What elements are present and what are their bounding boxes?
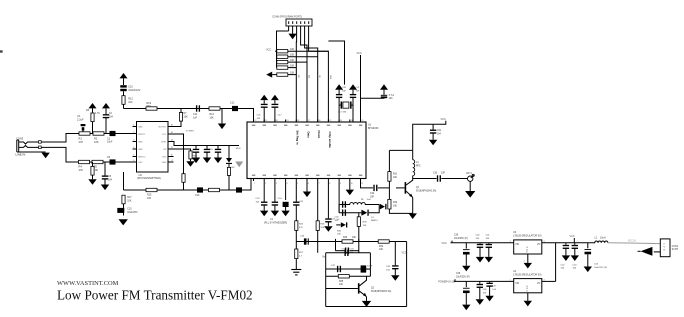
ground battery arrow left — [641, 247, 653, 256]
svg-text:Chip enable: Chip enable — [328, 132, 332, 149]
svg-text:C46: C46 — [483, 289, 488, 291]
wire stub to mod node — [123, 172, 125, 190]
svg-text:25V: 25V — [367, 269, 371, 271]
svg-text:Q2: Q2 — [371, 288, 375, 290]
wire CON1 pin5 to bus C — [305, 31, 318, 122]
capacitor C34 parallel — [336, 250, 345, 252]
svg-text:1: 1 — [254, 183, 255, 185]
svg-text:9018(NPN30V0.5A): 9018(NPN30V0.5A) — [371, 290, 392, 293]
svg-text:C43: C43 — [573, 264, 578, 266]
svg-text:VCC: VCC — [162, 134, 167, 136]
transistor Q2 9018 — [358, 283, 360, 293]
ground Q2 emitter — [362, 301, 371, 307]
svg-text:L78L05 (REGULATOR 5V): L78L05 (REGULATOR 5V) — [513, 273, 542, 276]
resistor R3 bias — [91, 113, 94, 122]
svg-text:104: 104 — [386, 269, 390, 271]
svg-text:10K: 10K — [363, 225, 367, 227]
svg-text:R26: R26 — [299, 224, 304, 226]
svg-text:RFC: RFC — [416, 165, 421, 167]
connector ANT1 antenna — [468, 176, 473, 181]
ground CON1 — [288, 34, 296, 40]
svg-text:104: 104 — [483, 292, 487, 294]
capacitor C8a on h-line — [196, 105, 197, 111]
ground h-line — [218, 124, 226, 130]
ground R6 — [88, 179, 96, 185]
svg-text:INPUT2: INPUT2 — [138, 157, 146, 159]
svg-text:POWER4.5-12V: POWER4.5-12V — [438, 281, 456, 284]
wire pin5 chain down — [295, 205, 297, 221]
svg-text:47K: 47K — [79, 168, 84, 172]
svg-text:6: 6 — [308, 183, 309, 185]
svg-text:9: 9 — [664, 244, 666, 246]
svg-text:R31: R31 — [393, 174, 398, 176]
svg-text:3: 3 — [276, 183, 277, 185]
resistor R31 base bias upper — [388, 150, 390, 171]
resistor R2 — [93, 132, 104, 135]
ground mark faded — [235, 162, 243, 168]
svg-text:10K: 10K — [127, 199, 132, 202]
svg-text:9V BT: 9V BT — [672, 249, 679, 251]
svg-text:R27: R27 — [299, 252, 304, 254]
svg-text:10K: 10K — [184, 115, 189, 118]
ground R10 — [186, 161, 194, 167]
ground C46 — [476, 299, 484, 305]
wire CON1 ground pin2 — [292, 31, 294, 34]
capacitor C44 electrolytic — [587, 243, 589, 249]
svg-text:100: 100 — [389, 98, 394, 100]
svg-text:47K: 47K — [79, 140, 84, 144]
power VCC bias right — [102, 103, 110, 108]
capacitor C21 xtal right — [350, 94, 356, 95]
svg-text:R3: R3 — [86, 109, 90, 112]
svg-text:C12: C12 — [230, 102, 235, 105]
wire regulator outputs junction — [555, 243, 557, 282]
resistor R33 — [342, 240, 353, 243]
pin stubs U2 left — [133, 126, 137, 128]
svg-text:MOD: MOD — [236, 148, 242, 150]
svg-text:4.7: 4.7 — [299, 255, 303, 257]
svg-text:104: 104 — [573, 268, 577, 270]
svg-text:104: 104 — [492, 289, 496, 291]
svg-text:C28: C28 — [300, 236, 305, 238]
pin stubs U2 right — [168, 156, 174, 158]
ground C42 — [562, 255, 570, 261]
wire U3 output — [542, 242, 588, 244]
capacitor C30b — [206, 146, 208, 149]
svg-text:100: 100 — [147, 197, 152, 200]
ground C31 — [429, 140, 437, 146]
ground U1 pin10 — [349, 181, 351, 190]
svg-text:560: 560 — [193, 155, 197, 157]
diode D1 varactor — [361, 210, 367, 216]
wire R33 right — [353, 241, 359, 243]
svg-text:10uH: 10uH — [600, 237, 606, 239]
inductor L1 — [339, 203, 379, 205]
svg-text:470: 470 — [299, 227, 303, 229]
svg-text:104: 104 — [437, 133, 442, 135]
node input arrow row5 — [266, 72, 272, 78]
svg-text:VIN: VIN — [515, 283, 519, 285]
svg-text:R1: R1 — [79, 137, 83, 141]
wire CON1 pin4 to bus B — [301, 31, 307, 122]
svg-text:C1: C1 — [77, 114, 81, 118]
svg-text:C39: C39 — [454, 234, 459, 236]
wire left vertical osc — [325, 253, 327, 307]
svg-text:10K: 10K — [290, 48, 295, 51]
resistor R6 to ground — [92, 162, 94, 166]
wire U4 output to junction — [542, 280, 556, 282]
svg-text:TEST: TEST — [161, 142, 167, 144]
resistor R35 row4 — [338, 275, 349, 278]
resistor R34 — [359, 241, 378, 243]
ground earth style — [291, 269, 301, 271]
resistor R1 — [79, 132, 90, 135]
svg-text:C16: C16 — [257, 115, 262, 117]
svg-text:CON6 (PROGRAM PORT): CON6 (PROGRAM PORT) — [272, 16, 302, 19]
svg-text:R30: R30 — [337, 231, 342, 233]
pin stubs CON1 — [288, 26, 290, 31]
svg-text:V: V — [664, 247, 666, 249]
resistor R4 — [79, 160, 90, 163]
svg-text:104: 104 — [486, 238, 490, 240]
resistor R16 on mod line — [209, 188, 220, 191]
svg-text:R4: R4 — [79, 165, 83, 169]
svg-text:10K: 10K — [290, 59, 295, 62]
svg-text:22: 22 — [254, 120, 256, 122]
svg-text:10K: 10K — [210, 116, 215, 119]
svg-text:10uF: 10uF — [107, 141, 113, 144]
wire tank bottom rail — [339, 212, 361, 214]
ground C5 — [104, 179, 106, 185]
svg-text:10K: 10K — [290, 54, 295, 57]
svg-text:L1: L1 — [361, 199, 364, 201]
svg-text:R9: R9 — [232, 167, 236, 169]
svg-text:Clock: Clock — [317, 130, 321, 138]
svg-text:CEN: CEN — [329, 75, 331, 80]
svg-text:R2: R2 — [94, 137, 98, 141]
svg-text:13: 13 — [351, 120, 353, 122]
svg-text:R34: R34 — [379, 246, 384, 248]
wire U1 pin7 chain — [317, 181, 319, 221]
ground C40 — [476, 257, 484, 263]
power VCC xtal right — [349, 84, 357, 89]
capacitor C32 base coupling — [373, 185, 374, 191]
svg-text:2: 2 — [524, 261, 526, 263]
svg-text:Data: Data — [306, 132, 310, 139]
svg-text:X.T.A: X.T.A — [389, 94, 395, 97]
resistor R10 with ground — [168, 149, 191, 151]
svg-text:12: 12 — [361, 120, 363, 122]
svg-text:Low Power FM Transmitter V-FM0: Low Power FM Transmitter V-FM02 — [57, 288, 253, 303]
wire bus D spur to xtal supply — [328, 41, 344, 85]
svg-text:R33: R33 — [343, 237, 348, 239]
svg-text:CON3: CON3 — [16, 137, 24, 141]
wire U1 pin11 to base line — [361, 181, 373, 188]
svg-text:VCC: VCC — [357, 52, 362, 55]
diode D2 — [228, 146, 230, 159]
resistor R8 — [182, 174, 185, 183]
svg-text:VIN: VIN — [515, 244, 519, 246]
svg-text:10uF/25V (P): 10uF/25V (P) — [456, 277, 470, 279]
wire VCC branch to C22 — [361, 97, 385, 98]
wire pll filter node line — [296, 241, 335, 243]
svg-text:C32: C32 — [370, 193, 375, 195]
wire base cap — [372, 187, 374, 189]
svg-text:C40: C40 — [476, 234, 481, 236]
svg-text:10K: 10K — [290, 64, 295, 67]
svg-text:U1: U1 — [270, 218, 274, 221]
svg-text:(PLL SYNTHESIZER): (PLL SYNTHESIZER) — [264, 222, 287, 225]
svg-text:18: 18 — [297, 120, 299, 122]
svg-text:14: 14 — [340, 120, 342, 122]
svg-text:CK: CK — [318, 75, 320, 78]
wire tank left side — [338, 205, 340, 213]
svg-text:10K: 10K — [352, 237, 357, 239]
ground C35 — [391, 275, 399, 281]
capacitor C42 — [565, 243, 567, 245]
svg-text:10: 10 — [351, 183, 353, 185]
ground U1 pin6 — [306, 181, 308, 192]
svg-text:ANT1: ANT1 — [466, 172, 473, 175]
svg-text:10K: 10K — [320, 227, 324, 229]
wire right vertical osc — [369, 253, 371, 276]
node tank output arrow — [380, 204, 385, 210]
ground jack — [41, 153, 49, 159]
capacitor C37 row3 — [337, 266, 338, 272]
wire jack ring to right channel — [41, 147, 78, 162]
ground C25 — [281, 211, 289, 217]
svg-text:C37: C37 — [331, 265, 336, 267]
svg-text:104: 104 — [108, 178, 113, 181]
svg-text:C33: C33 — [433, 173, 438, 175]
wire VCC elbow to Q1 stage — [413, 121, 446, 151]
wire row3 — [326, 268, 371, 270]
svg-text:10P: 10P — [441, 173, 446, 175]
capacitor C12a electrolytic on h-line — [232, 106, 238, 111]
ground C39 — [462, 266, 470, 272]
svg-text:U2: U2 — [139, 173, 143, 177]
svg-text:VCC IN: VCC IN — [628, 240, 636, 242]
svg-text:11: 11 — [361, 183, 363, 185]
svg-text:20: 20 — [276, 120, 278, 122]
svg-text:104: 104 — [257, 118, 261, 120]
svg-text:X1 7.6M: X1 7.6M — [338, 112, 346, 114]
resistor R28 — [316, 221, 319, 231]
wire node to RC block — [335, 239, 337, 251]
svg-text:OSC: OSC — [138, 162, 143, 164]
wire antenna cap to connector — [441, 178, 467, 180]
svg-text:9018(NPN30V0.5A): 9018(NPN30V0.5A) — [416, 189, 437, 192]
svg-text:104: 104 — [561, 268, 565, 270]
capacitor C14a electrolytic mod 2 — [236, 187, 242, 192]
resistor R21 ladder row1 — [275, 50, 277, 52]
capacitor C7 rail electrolytic — [120, 85, 126, 87]
wire rail down to h-line — [123, 104, 125, 108]
svg-text:R28: R28 — [320, 224, 325, 226]
svg-text:TO MPX: TO MPX — [186, 131, 195, 133]
svg-text:10K: 10K — [337, 234, 341, 236]
svg-text:10K: 10K — [393, 205, 398, 207]
wire U4 ground — [527, 293, 529, 301]
svg-text:2: 2 — [265, 183, 266, 185]
wire row2 — [326, 252, 371, 254]
wire R5 to C6 — [103, 161, 110, 163]
svg-text:OUTPUT: OUTPUT — [158, 127, 167, 129]
ground C30b — [203, 158, 211, 164]
capacitor C35 — [394, 242, 396, 266]
capacitor C33 antenna coupling — [437, 175, 438, 181]
wire CON1 pin1 to ladder rail — [277, 31, 289, 51]
wire base row Q2 — [326, 288, 358, 290]
pin stubs U1 top — [253, 120, 255, 123]
svg-text:VCC: VCC — [402, 252, 407, 255]
svg-text:C31: C31 — [437, 130, 442, 132]
wire antenna ground — [469, 181, 471, 191]
resistor R27 — [295, 249, 298, 259]
svg-text:104: 104 — [109, 115, 114, 118]
svg-text:D1: D1 — [371, 217, 375, 219]
svg-text:Q1: Q1 — [416, 187, 420, 189]
wire R1-R2 — [90, 133, 93, 135]
capacitor C29a tank left — [342, 201, 343, 207]
svg-text:10P: 10P — [370, 196, 375, 198]
power VCC U1 pin2 — [260, 95, 268, 100]
wire U2 pin3 to capacitor row — [168, 142, 239, 146]
capacitor C26 pin5 — [295, 181, 297, 202]
svg-text:4: 4 — [286, 183, 287, 185]
svg-text:8: 8 — [329, 183, 330, 185]
svg-text:15P: 15P — [342, 90, 346, 92]
capacitor C15a electrolytic to ground — [123, 204, 125, 216]
svg-text:C13: C13 — [195, 194, 200, 197]
svg-text:1uH: 1uH — [367, 199, 371, 201]
svg-text:C45: C45 — [456, 273, 461, 275]
power VCC xtal left — [335, 84, 343, 89]
svg-text:C23: C23 — [256, 198, 261, 200]
ground C43 — [571, 255, 579, 261]
svg-text:R35: R35 — [339, 281, 344, 283]
svg-text:B: B — [664, 250, 666, 252]
svg-text:LINE IN: LINE IN — [16, 152, 26, 156]
capacitor C23 pin2 — [263, 181, 265, 202]
op-amp U1 BH1415F PLL synthesizer IC body — [247, 122, 366, 179]
svg-text:10K: 10K — [393, 177, 398, 179]
resistor R11 rail — [122, 96, 125, 105]
capacitor C27 pin8 — [327, 181, 329, 218]
ground C30c — [214, 158, 222, 164]
resistor R13 on h-line — [146, 107, 157, 110]
power VCC U1 pin3 — [271, 95, 279, 100]
connector CON1 programming header — [286, 19, 312, 26]
svg-text:C44: C44 — [594, 263, 599, 265]
svg-text:10K: 10K — [94, 140, 99, 144]
svg-text:R29: R29 — [363, 222, 368, 224]
svg-text:100: 100 — [339, 284, 344, 286]
capacitor C1 input coupling top — [82, 131, 84, 134]
capacitor C47 row2 — [489, 281, 491, 282]
svg-text:OSC: OSC — [162, 157, 167, 159]
ground C24 — [271, 211, 279, 217]
wire row4 — [326, 275, 371, 277]
capacitor C5 to ground — [104, 162, 106, 176]
svg-text:BB910: BB910 — [371, 220, 378, 222]
resistor R23 ladder row3 — [277, 60, 288, 63]
capacitor C24 pin3 — [274, 181, 276, 202]
svg-text:10uF/25V: 10uF/25V — [127, 211, 138, 214]
svg-text:5: 5 — [297, 183, 298, 185]
svg-text:VC: VC — [337, 219, 340, 221]
svg-text:VO: VO — [537, 244, 541, 246]
svg-text:D: D — [526, 290, 528, 292]
resistor R29 varactor bias — [358, 213, 360, 217]
ground antenna — [465, 191, 475, 198]
svg-text:104: 104 — [476, 238, 480, 240]
capacitor C22 — [381, 95, 387, 96]
capacitor C36 row2 — [344, 250, 345, 256]
wire U2 pin to R8 chain — [168, 134, 184, 174]
capacitor C46 row2 — [479, 281, 481, 283]
connector CON2 battery — [660, 239, 670, 257]
svg-text:L3: L3 — [416, 162, 419, 164]
wire VCC right column — [406, 242, 408, 307]
svg-text:D: D — [526, 252, 528, 254]
wire R26 to node — [295, 230, 297, 249]
wire battery ground pin — [654, 251, 661, 253]
svg-text:VCC: VCC — [441, 118, 446, 121]
ground Q1 emitter — [409, 213, 417, 219]
svg-text:4.7K: 4.7K — [95, 112, 100, 115]
capacitor C2 bias decouple — [103, 114, 109, 115]
power VCC C22 — [383, 90, 385, 95]
capacitor C17 on U1 pin3 — [272, 104, 279, 105]
capacitor C31 decouple — [432, 124, 434, 129]
svg-text:7: 7 — [319, 183, 320, 185]
svg-text:L2: L2 — [595, 237, 598, 239]
svg-text:C20: C20 — [342, 87, 347, 89]
transistor Q1 9018 — [405, 182, 407, 194]
svg-text:PD: PD — [297, 75, 299, 78]
svg-text:10uF/25V (P): 10uF/25V (P) — [454, 238, 468, 240]
svg-text:(FM TRANSMITTER): (FM TRANSMITTER) — [137, 177, 161, 180]
svg-text:1uF: 1uF — [193, 116, 198, 119]
svg-text:104: 104 — [256, 201, 260, 203]
svg-text:VCC: VCC — [442, 242, 447, 245]
wire CON1 pin3 to bus A — [295, 31, 297, 122]
svg-text:INPUT1: INPUT1 — [138, 134, 146, 136]
svg-text:560: 560 — [147, 105, 152, 108]
wire collector tap to antenna — [413, 178, 437, 180]
ground C27 — [324, 226, 332, 232]
wire R4-R5 — [90, 161, 93, 163]
svg-text:VCC: VCC — [266, 48, 271, 51]
wire R28 to row2 — [317, 230, 319, 252]
resistor R5 — [92, 160, 103, 163]
capacitor C30a — [195, 146, 197, 149]
svg-text:VCC: VCC — [570, 235, 575, 238]
svg-text:BH1415F: BH1415F — [368, 127, 379, 130]
svg-text:10K: 10K — [290, 71, 295, 74]
ground C44 — [584, 267, 592, 273]
svg-text:C41: C41 — [486, 234, 491, 236]
svg-text:C24: C24 — [278, 198, 283, 200]
wire mod line — [124, 179, 252, 191]
svg-text:C35: C35 — [386, 266, 391, 268]
wire U3 ground — [527, 254, 529, 263]
svg-text:GND: GND — [138, 142, 143, 144]
wire jack sleeve to ground — [18, 151, 46, 153]
connector J1 LINE IN jack — [16, 140, 18, 152]
ground C23 — [260, 211, 268, 217]
